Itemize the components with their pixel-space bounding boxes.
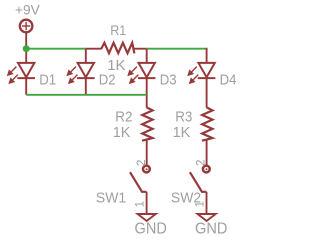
svg-text:1K: 1K [113,125,131,141]
svg-text:2: 2 [136,160,148,166]
svg-text:GND: GND [135,220,167,238]
wire: top bus green from D3 tap to D4 corner [147,48,207,50]
LED D2 [77,63,95,78]
svg-text:D2: D2 [99,71,116,88]
supply symbol +9V [20,20,33,33]
LED D3 emission arrows [128,67,138,84]
LED D1 [17,63,35,78]
svg-text:GND: GND [195,220,227,238]
node junction dot on +9V net [23,45,30,52]
svg-text:SW2: SW2 [171,190,201,207]
LED D4 [198,63,216,78]
wire: SW1 pin 1 down to GND [146,192,148,214]
LED D2 emission arrows [68,67,78,84]
svg-text:+9V: +9V [15,2,41,17]
LED D4 emission arrows [188,67,198,84]
switch SW2 [190,166,210,192]
wire: supply pin from +9V symbol through junction to D1 anode [25,33,27,64]
wire: D2 cathode pin [85,78,87,95]
wire: D2 anode pin [85,49,87,64]
resistor R2 [142,107,153,140]
SW1 pin contact dot [146,168,148,170]
wire: red segment from D2 tap to R1 left terminal [86,48,102,50]
svg-text:D1: D1 [39,71,56,88]
svg-text:R2: R2 [115,108,132,124]
svg-text:2: 2 [196,160,208,166]
svg-text:SW1: SW1 [96,190,126,207]
svg-text:R3: R3 [175,108,192,124]
wire: D4 anode pin [206,48,208,64]
wire: D1 cathode pin [25,78,27,95]
ground GND2 [198,214,216,221]
svg-text:D3: D3 [160,71,177,88]
LED D3 [138,63,156,78]
wire: D3 cathode pin down through bus to R2 [146,78,148,108]
wire: D4 cathode pin down to R3 [206,78,208,108]
resistor R3 [202,107,213,140]
resistor R1 [101,43,134,54]
svg-text:R1: R1 [110,23,126,39]
switch SW1 [130,166,150,192]
svg-text:D4: D4 [220,71,237,88]
wire: D3 anode pin [146,49,148,64]
ground GND1 [138,214,156,221]
wire: top bus green from junction to D2 tap [26,48,86,50]
wire: SW2 pin 1 down to GND [206,192,208,214]
svg-text:1K: 1K [173,125,191,141]
wire: lower bus green from D1 cathode to R2 column [26,94,147,96]
wire: R2 bottom to SW1 contact [146,140,148,165]
wire: red segment from R1 right terminal to D3 tap [134,48,147,50]
LED D1 emission arrows [8,67,18,84]
svg-text:1: 1 [134,201,146,207]
SW2 pin contact dot [206,168,208,170]
wire: R3 bottom to SW2 contact [206,140,208,165]
